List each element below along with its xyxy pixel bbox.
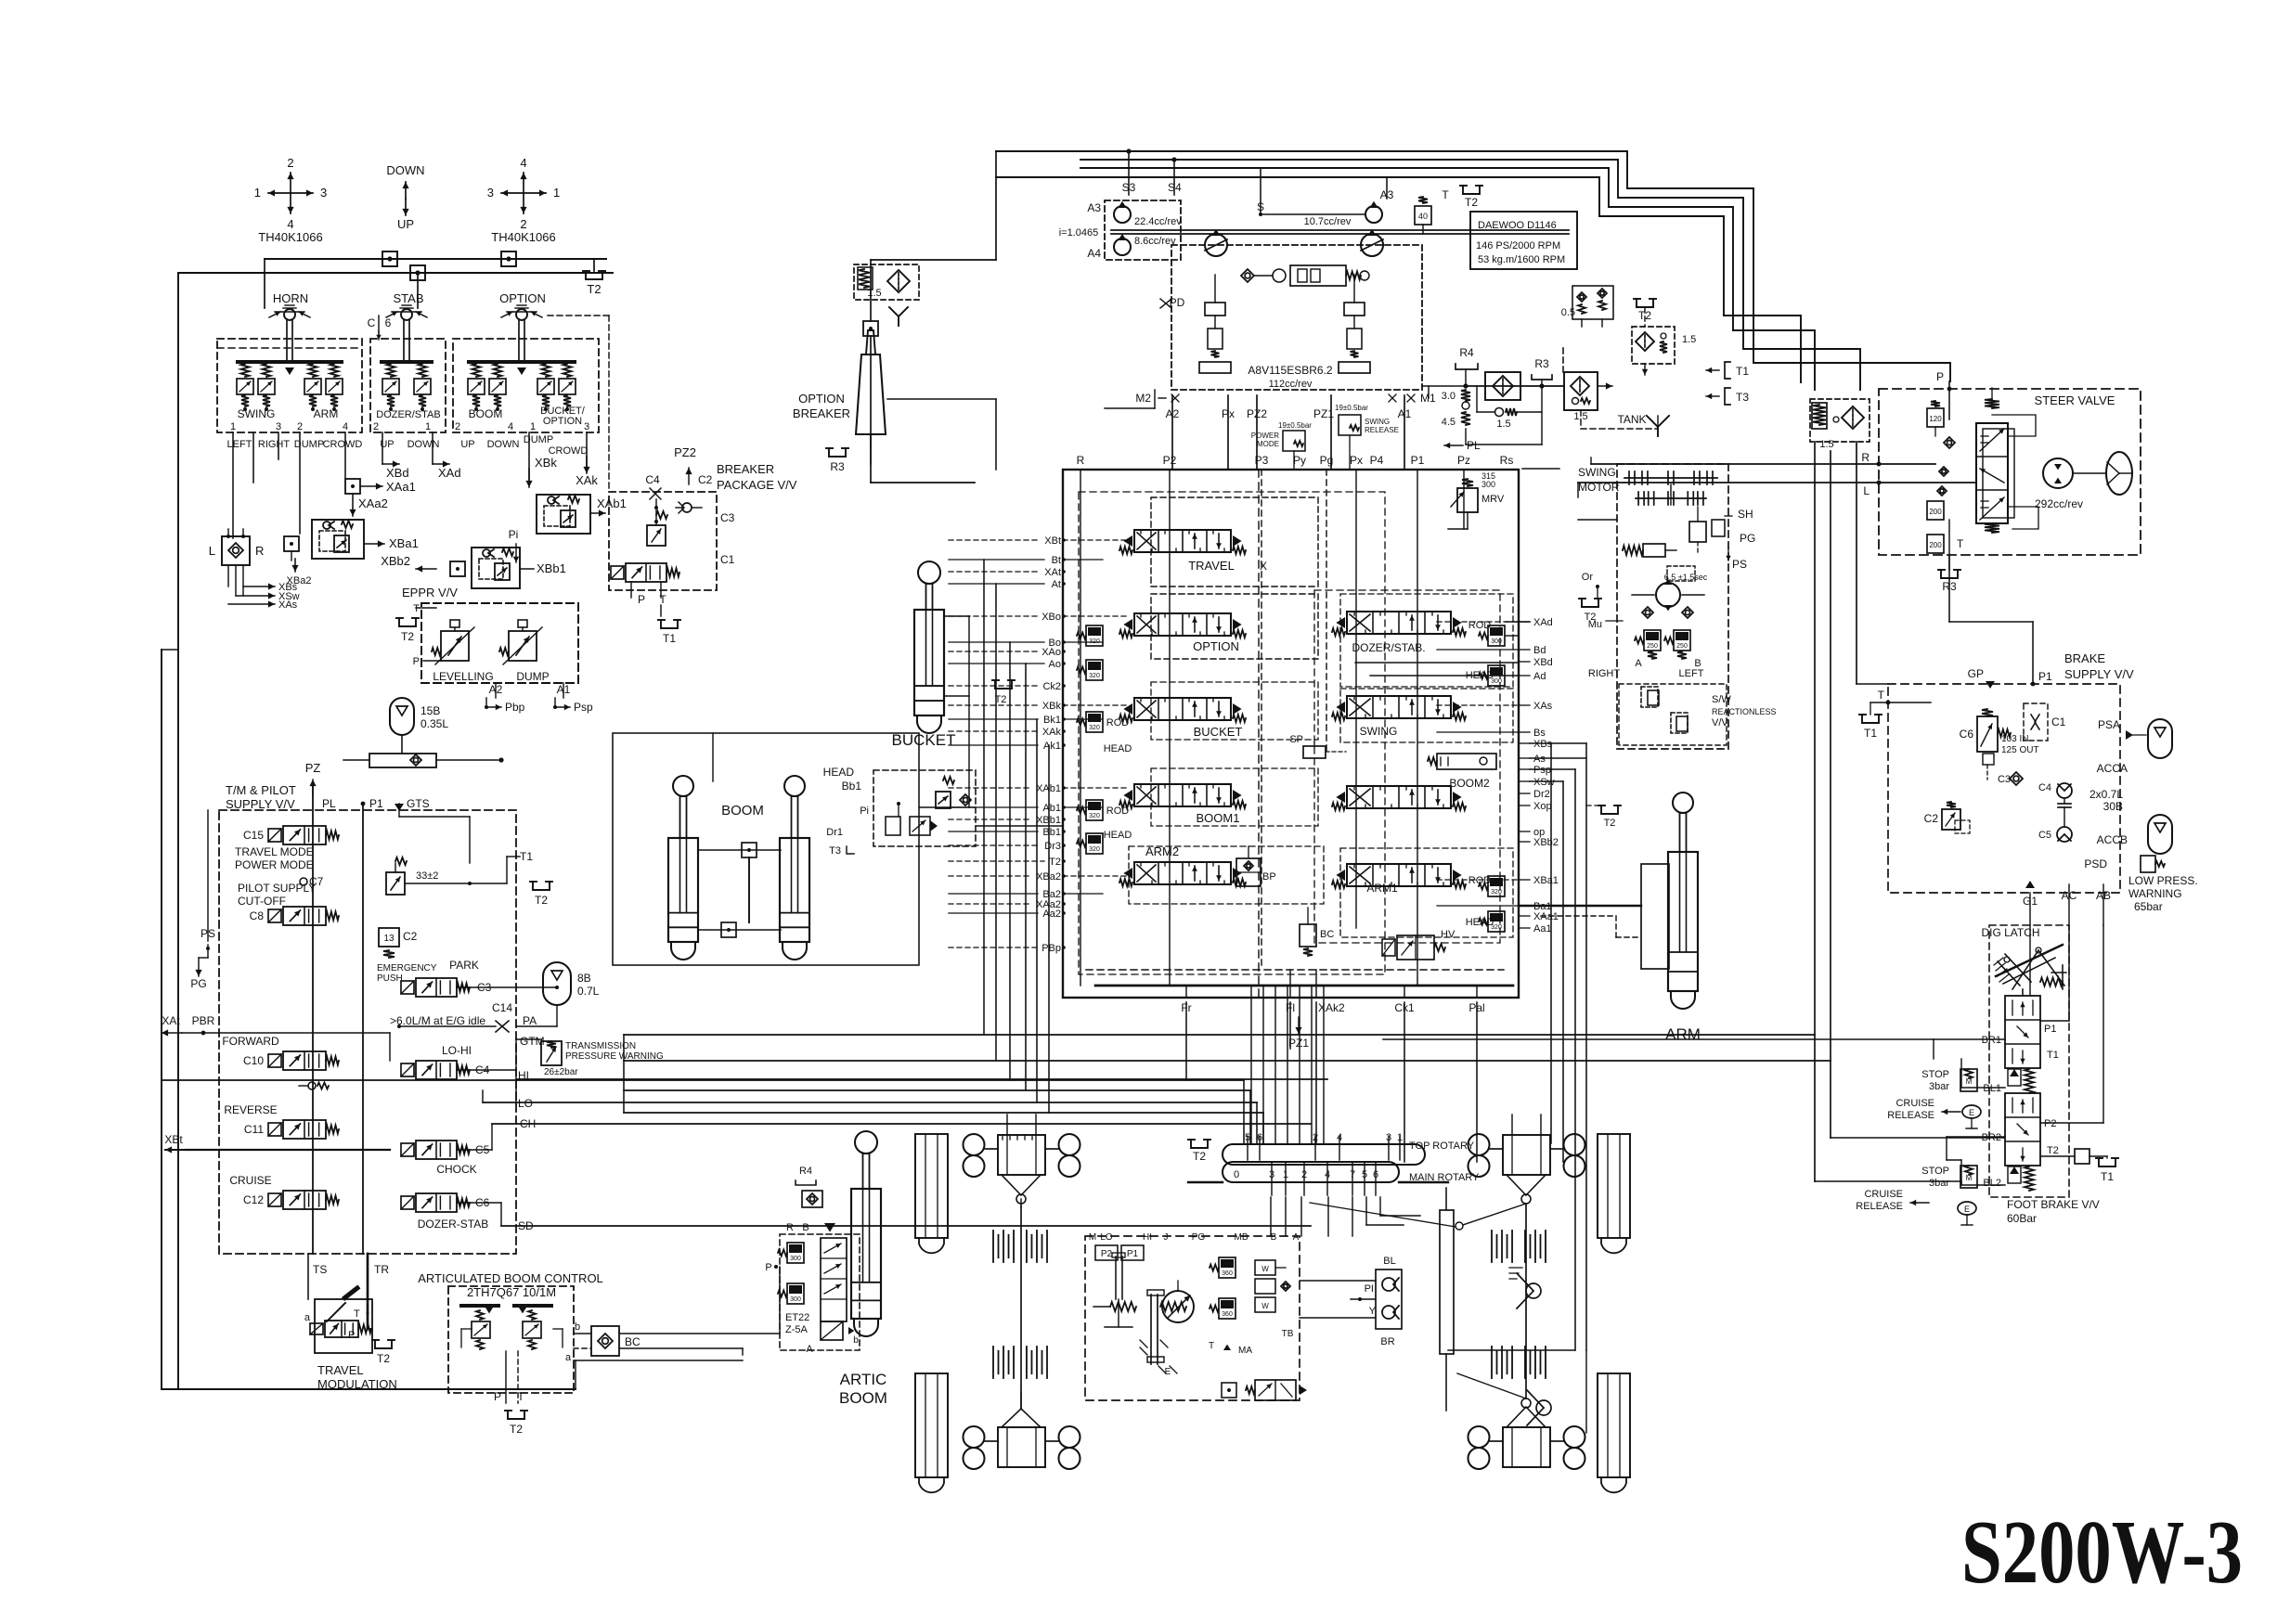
- svg-text:XAt: XAt: [162, 1014, 180, 1027]
- joystick pattern left TH40K1066: [254, 156, 327, 244]
- wire Ba1 thick: [1519, 905, 1641, 907]
- svg-text:PZ2: PZ2: [674, 445, 696, 459]
- svg-text:A: A: [1635, 658, 1642, 669]
- svg-text:PA: PA: [523, 1014, 537, 1027]
- wire HI row: [457, 1039, 541, 1104]
- stabilizer cylinder right front: [1598, 1134, 1630, 1253]
- transmission gears: [1093, 1253, 1186, 1364]
- transmission shift solenoid: [1222, 1380, 1307, 1400]
- svg-text:TR: TR: [374, 1263, 389, 1276]
- svg-text:DUMP: DUMP: [524, 434, 553, 445]
- cylinder BUCKET: [892, 561, 956, 749]
- svg-text:RELEASE: RELEASE: [1365, 426, 1399, 434]
- port XAd: [433, 432, 461, 480]
- svg-text:200: 200: [1929, 508, 1942, 516]
- svg-text:CHOCK: CHOCK: [436, 1163, 476, 1176]
- wire bundle mid 4: [624, 1089, 1250, 1091]
- svg-text:MODE: MODE: [1257, 440, 1279, 448]
- svg-text:RIGHT: RIGHT: [1588, 668, 1621, 679]
- fork joint right: [1509, 1268, 1541, 1308]
- svg-text:CUT-OFF: CUT-OFF: [238, 895, 286, 908]
- artic ports P T b a: [494, 1321, 580, 1403]
- Psp shuttle assembly: [1428, 754, 1496, 769]
- svg-text:103 IN: 103 IN: [2001, 734, 2028, 744]
- svg-text:Or: Or: [1582, 572, 1594, 583]
- port C7: [300, 875, 324, 888]
- svg-text:DAEWOO D1146: DAEWOO D1146: [1478, 220, 1557, 231]
- label UP DOWN DUMP CROWD: [460, 434, 588, 457]
- svg-text:CRUISE: CRUISE: [229, 1174, 271, 1187]
- cylinder ARM: [1665, 793, 1701, 1043]
- valve C2 emergency: [377, 928, 437, 984]
- wire CH long: [457, 1124, 1311, 1150]
- svg-text:P1: P1: [369, 797, 383, 810]
- svg-text:3: 3: [584, 421, 589, 432]
- wire top bus 2: [1080, 160, 1860, 390]
- svg-text:BREAKER: BREAKER: [793, 406, 850, 420]
- svg-text:T1: T1: [1736, 365, 1749, 378]
- solenoid valve C3 PARK: [401, 959, 492, 997]
- svg-text:Xop: Xop: [1533, 801, 1552, 812]
- svg-text:BC: BC: [1320, 929, 1334, 940]
- valve section ARM2: [1119, 844, 1324, 904]
- port C4 C2 C3 C1: [645, 473, 734, 566]
- svg-text:PL: PL: [1467, 439, 1481, 452]
- svg-text:1.5: 1.5: [1682, 334, 1696, 345]
- accumulator B + ACCB: [2097, 815, 2172, 854]
- tank T2 return filter: [1632, 299, 1696, 375]
- svg-text:T3: T3: [1736, 391, 1749, 404]
- svg-text:UP: UP: [397, 217, 414, 231]
- tank T2 top-left: [583, 259, 606, 296]
- svg-text:300: 300: [790, 1296, 801, 1303]
- svg-text:SWING: SWING: [1360, 725, 1398, 738]
- svg-text:Ao: Ao: [1049, 659, 1061, 670]
- main valve bottom collectors: [1086, 970, 1513, 998]
- svg-text:TS: TS: [313, 1263, 327, 1276]
- svg-text:TH40K1066: TH40K1066: [258, 230, 322, 244]
- svg-text:T2: T2: [535, 894, 548, 907]
- svg-text:STOP: STOP: [1921, 1069, 1949, 1080]
- svg-text:T: T: [1957, 537, 1964, 550]
- solenoid valve C10 FORWARD: [222, 1035, 339, 1070]
- svg-text:1.5: 1.5: [867, 288, 881, 299]
- svg-text:FOOT BRAKE V/V: FOOT BRAKE V/V: [2007, 1198, 2100, 1211]
- svg-text:T: T: [659, 593, 666, 606]
- svg-text:HEAD: HEAD: [1104, 830, 1132, 841]
- suspension spring pack left front: [993, 1231, 1047, 1262]
- svg-text:T1: T1: [2101, 1170, 2114, 1183]
- svg-text:T: T: [354, 1308, 360, 1320]
- label OPTION BREAKER: [793, 392, 850, 420]
- head valve box bucket: [823, 766, 976, 857]
- svg-text:4: 4: [520, 156, 526, 170]
- svg-text:A: A: [806, 1344, 813, 1355]
- transmission box: [1085, 1236, 1300, 1400]
- boom cylinder links: [698, 843, 781, 937]
- svg-text:R: R: [1861, 451, 1870, 464]
- wire main valve bottom drops: [1186, 1002, 1477, 1162]
- svg-text:T: T: [413, 603, 420, 614]
- swing brake spring piston: [1623, 544, 1676, 557]
- svg-text:MRV: MRV: [1481, 494, 1505, 505]
- svg-text:SWING: SWING: [1578, 466, 1616, 479]
- svg-text:TH40K1066: TH40K1066: [491, 230, 555, 244]
- svg-text:TRAVEL MODE: TRAVEL MODE: [235, 845, 314, 858]
- svg-text:BRAKE: BRAKE: [2064, 651, 2105, 665]
- cruise release upper: [1887, 1098, 1981, 1128]
- wire SD long: [457, 1203, 1311, 1226]
- EPPR valve LEVELLING: [432, 620, 494, 683]
- wire Rs to steer: [1522, 468, 1559, 470]
- svg-text:PZ1: PZ1: [1288, 1037, 1309, 1050]
- svg-text:Dr1: Dr1: [826, 827, 843, 838]
- DAEWOO engine box: [1470, 212, 1577, 269]
- svg-text:26±2bar: 26±2bar: [544, 1067, 578, 1077]
- junction box 1: [382, 251, 397, 266]
- tank T2 artic: [505, 1411, 527, 1436]
- svg-text:XBk: XBk: [535, 456, 557, 470]
- svg-text:RELEASE: RELEASE: [1856, 1201, 1903, 1212]
- svg-text:1: 1: [530, 421, 536, 432]
- svg-text:TB: TB: [1282, 1329, 1294, 1339]
- svg-text:PBp: PBp: [1041, 943, 1061, 954]
- main valve bottom ports: [1181, 1001, 1484, 1050]
- axle shaft right: [1525, 1204, 1527, 1398]
- svg-text:0.7L: 0.7L: [577, 985, 600, 998]
- svg-text:a: a: [565, 1352, 572, 1363]
- stop valve 3bar lower: [1921, 1166, 1977, 1189]
- svg-text:C2: C2: [403, 930, 418, 943]
- svg-text:Px: Px: [1350, 454, 1363, 467]
- lines HI LO CH SD: [518, 1097, 536, 1232]
- tank T2 xop drain: [1586, 806, 1621, 829]
- svg-text:MA: MA: [1238, 1346, 1252, 1356]
- svg-text:BOOM1: BOOM1: [1197, 811, 1240, 825]
- left 320 reliefs: [1077, 625, 1103, 854]
- pump 22.4cc: [1087, 181, 1182, 227]
- svg-text:2: 2: [373, 421, 379, 432]
- label T/M & PILOT SUPPLY V/V: [226, 783, 296, 811]
- svg-text:0.35L: 0.35L: [420, 717, 448, 730]
- label LEFT RIGHT DUMP CROWD: [227, 439, 363, 450]
- main valve internal dashed frame: [1079, 492, 1500, 974]
- svg-text:3.0: 3.0: [1442, 391, 1456, 402]
- svg-text:BUCKET: BUCKET: [892, 731, 956, 749]
- svg-text:HEAD: HEAD: [823, 766, 855, 779]
- swing release timer: [1664, 566, 1708, 582]
- steer spool: [1976, 388, 2014, 533]
- svg-text:T1: T1: [520, 850, 533, 863]
- ports TS TR: [308, 1254, 389, 1313]
- svg-text:15B: 15B: [420, 704, 440, 717]
- svg-text:STEER VALVE: STEER VALVE: [2035, 393, 2115, 407]
- svg-text:Bb1: Bb1: [842, 780, 862, 793]
- svg-text:TOP ROTARY: TOP ROTARY: [1409, 1141, 1475, 1152]
- svg-text:DUMP: DUMP: [516, 670, 549, 683]
- pump 10.7cc steering: [1257, 188, 1394, 227]
- svg-text:4.5: 4.5: [1442, 417, 1456, 428]
- label TANK + funnel: [1581, 410, 1669, 436]
- svg-text:Py: Py: [1293, 454, 1306, 467]
- svg-text:C12: C12: [243, 1193, 264, 1206]
- svg-text:b: b: [575, 1321, 580, 1333]
- junction box 2: [501, 251, 516, 266]
- svg-text:BOOM: BOOM: [721, 803, 764, 818]
- wire bundle mid 3: [162, 1079, 1244, 1081]
- svg-text:XAa1: XAa1: [386, 480, 416, 494]
- wire right verticals: [1551, 743, 1586, 1350]
- relief C3: [647, 499, 667, 546]
- steer relief 120: [1927, 401, 1944, 436]
- drive shaft right: [1440, 1188, 1454, 1411]
- svg-text:XBa1: XBa1: [1533, 875, 1559, 886]
- svg-text:OPTION: OPTION: [499, 291, 546, 305]
- tank T2 travel modulation: [372, 1340, 395, 1365]
- ports Pbp Psp: [485, 698, 593, 714]
- label BREAKER PACKAGE V/V: [717, 462, 797, 492]
- svg-text:DUMP: DUMP: [294, 439, 324, 450]
- pilot valve cluster BOOM/BUCKET box: [453, 339, 599, 432]
- valve section ARM1: [1332, 848, 1513, 937]
- tank T1 tm: [507, 850, 552, 907]
- svg-text:XAs: XAs: [1533, 701, 1553, 712]
- foot brake ports: [1982, 1024, 2059, 1189]
- wire artic lines: [574, 1267, 780, 1360]
- svg-text:B: B: [802, 1222, 809, 1233]
- solenoid valve C4 LO-HI: [401, 1044, 529, 1082]
- svg-text:LO-HI: LO-HI: [442, 1044, 472, 1057]
- svg-text:4: 4: [343, 421, 348, 432]
- svg-text:ET22: ET22: [785, 1312, 809, 1323]
- svg-text:LEFT: LEFT: [227, 439, 252, 450]
- fork joint lower: [1527, 1390, 1551, 1425]
- svg-text:XAt: XAt: [1044, 567, 1061, 578]
- svg-text:REACTIONLESS: REACTIONLESS: [1712, 707, 1777, 716]
- steer checks: [1937, 437, 1955, 496]
- wire top bus 3: [1080, 168, 1815, 390]
- wheel group rear-right: [1457, 1373, 1585, 1469]
- swing ports A B RIGHT LEFT: [1588, 658, 1704, 679]
- svg-text:PACKAGE V/V: PACKAGE V/V: [717, 478, 797, 492]
- svg-text:10.7cc/rev: 10.7cc/rev: [1304, 216, 1352, 227]
- svg-text:CRUISE: CRUISE: [1864, 1189, 1903, 1200]
- svg-text:300: 300: [1481, 480, 1495, 489]
- svg-text:J: J: [1164, 1232, 1169, 1243]
- svg-text:Ck2: Ck2: [1042, 681, 1061, 692]
- svg-text:XAk2: XAk2: [1318, 1001, 1345, 1014]
- svg-text:At: At: [1052, 579, 1061, 590]
- logo S200W-3: [1961, 1502, 2243, 1602]
- brake C4 C5 checks: [2038, 782, 2072, 842]
- wire BR1 long left: [1383, 1039, 1934, 1270]
- svg-text:C11: C11: [244, 1123, 264, 1136]
- wheel group front-right: [1310, 1134, 1585, 1230]
- svg-text:C8: C8: [250, 909, 265, 922]
- svg-text:XBb2: XBb2: [381, 554, 410, 568]
- svg-text:ARM: ARM: [314, 407, 339, 420]
- svg-text:EPPR V/V: EPPR V/V: [402, 586, 458, 599]
- svg-text:XBa1: XBa1: [389, 536, 419, 550]
- svg-text:BL2: BL2: [1983, 1178, 2001, 1189]
- svg-text:CRUISE: CRUISE: [1895, 1098, 1934, 1109]
- port PZ PL P1 GTS: [305, 761, 430, 811]
- valve BP: [1236, 846, 1276, 886]
- valve section BOOM1: [1104, 768, 1318, 841]
- port PSD low press warning: [2084, 856, 2197, 913]
- svg-text:Ad: Ad: [1533, 671, 1546, 682]
- wire bundle mid 5: [624, 1102, 1257, 1103]
- steer metering motor: [2035, 458, 2083, 510]
- svg-text:ROD: ROD: [1106, 717, 1130, 728]
- svg-text:320: 320: [1089, 673, 1100, 679]
- svg-text:60Bar: 60Bar: [2007, 1212, 2037, 1225]
- ports PS PG: [190, 927, 215, 990]
- port XBd: [382, 432, 409, 480]
- ports G1 AC AB: [2023, 881, 2111, 925]
- main control valve outline: [1063, 470, 1519, 998]
- wire C1 to T1: [405, 857, 507, 885]
- svg-text:a: a: [304, 1312, 311, 1323]
- label PL arrow: [1444, 439, 1481, 452]
- 0.5 check group: [1561, 286, 1613, 327]
- label PZ2: [674, 445, 696, 484]
- junction box 3: [410, 265, 425, 280]
- svg-text:BL1: BL1: [1983, 1083, 2001, 1094]
- svg-text:T1: T1: [663, 632, 676, 645]
- transmission top ports: [1089, 1232, 1300, 1243]
- wire OPTION pilot dashed to breaker: [548, 316, 609, 492]
- main pump left rotor: [1205, 229, 1227, 256]
- solenoid valve C6 DOZER-STAB: [401, 1193, 490, 1231]
- svg-text:Ak1: Ak1: [1043, 741, 1061, 752]
- T1 T3 tank brackets: [1706, 362, 1749, 405]
- svg-text:C4: C4: [2038, 782, 2051, 793]
- relief assembly XBa1: [284, 520, 419, 561]
- svg-text:E: E: [1969, 1108, 1974, 1117]
- svg-text:R4: R4: [1459, 346, 1474, 359]
- relief assembly XAb1: [509, 495, 627, 562]
- brake C2 relief: [1924, 802, 1970, 833]
- wire pilot supply bus lower: [178, 270, 613, 308]
- transmission pump: [1162, 1281, 1194, 1322]
- svg-text:C2: C2: [1924, 812, 1939, 825]
- swing check valves: [1642, 607, 1693, 618]
- pump regulator center: [1241, 265, 1369, 286]
- wire brake to foot brake: [2030, 925, 2103, 1123]
- pilot valve cluster DOZER/STAB box: [370, 339, 446, 432]
- svg-text:BOOM: BOOM: [469, 407, 503, 420]
- svg-text:XBt: XBt: [1044, 535, 1061, 547]
- wire PS riser: [208, 810, 219, 948]
- svg-text:3bar: 3bar: [1929, 1081, 1949, 1092]
- svg-text:T2: T2: [1465, 196, 1478, 209]
- check valve L/R: [209, 529, 265, 596]
- svg-text:b: b: [853, 1335, 859, 1346]
- label DOZER/STAB ports: [373, 409, 441, 450]
- artic pedal valve right: [512, 1304, 563, 1349]
- svg-text:MB: MB: [1235, 1232, 1249, 1243]
- wheel group rear-left: [964, 1392, 1080, 1469]
- svg-text:P: P: [638, 593, 645, 606]
- filter return 1.5 with bypass: [1563, 348, 1612, 422]
- wire M2 left: [871, 260, 1155, 483]
- svg-text:>6.0L/M at E/G idle: >6.0L/M at E/G idle: [390, 1014, 485, 1027]
- svg-text:T2: T2: [1193, 1150, 1206, 1163]
- foot brake spring check lower: [2008, 1166, 2034, 1191]
- pump 8.6cc: [1059, 227, 1176, 260]
- svg-text:0: 0: [1234, 1169, 1239, 1180]
- wire bundle left risers: [623, 1035, 625, 1113]
- svg-text:Ab1: Ab1: [1042, 803, 1061, 814]
- solenoid valve C5 CHOCK: [401, 1141, 490, 1176]
- EPPR valve DUMP: [499, 620, 550, 683]
- svg-text:19±0.5bar: 19±0.5bar: [1278, 421, 1312, 430]
- svg-text:R4: R4: [799, 1166, 812, 1177]
- label GTM + transmission warning: [520, 1035, 664, 1077]
- svg-text:Pbp: Pbp: [505, 701, 525, 714]
- svg-text:Aa2: Aa2: [1042, 909, 1061, 920]
- svg-text:P1: P1: [2044, 1024, 2056, 1035]
- svg-text:E: E: [1964, 1205, 1970, 1214]
- steer port T R3: [1938, 520, 1964, 593]
- svg-text:Dr2: Dr2: [1533, 789, 1550, 800]
- stop valve 3bar upper: [1921, 1069, 1977, 1092]
- swing motor box: [1578, 464, 1728, 749]
- svg-text:1: 1: [425, 421, 431, 432]
- svg-text:XAd: XAd: [1533, 617, 1553, 628]
- main valve right port labels: [1519, 617, 1559, 934]
- svg-text:SWING: SWING: [1365, 418, 1390, 426]
- label >6.0L/M at E/G idle: [390, 1001, 557, 1032]
- valve section OPTION: [1119, 594, 1318, 659]
- svg-text:PARK: PARK: [449, 959, 479, 972]
- label BOOM BUCKET/OPTION ports: [455, 406, 589, 432]
- svg-text:P2: P2: [2044, 1118, 2056, 1129]
- svg-text:ACCA: ACCA: [2097, 762, 2128, 775]
- svg-text:XAd: XAd: [438, 466, 461, 480]
- svg-text:R: R: [1077, 454, 1085, 467]
- wire cruise bundle left: [1831, 1061, 1961, 1185]
- main pump right rotor: [1361, 229, 1383, 256]
- boom outline box: [613, 733, 919, 965]
- solenoid valve C8 pilot supply cutoff: [238, 882, 339, 925]
- tank T1 foot brake: [2040, 1149, 2118, 1183]
- svg-text:S/W: S/W: [1712, 694, 1731, 705]
- wire bundle mid 1: [624, 1034, 1815, 1036]
- svg-text:DOWN: DOWN: [386, 163, 424, 177]
- svg-text:PZ: PZ: [305, 761, 321, 775]
- axle shaft left: [1020, 1206, 1022, 1409]
- main valve top ports: [1077, 454, 1514, 467]
- svg-text:3: 3: [487, 186, 494, 200]
- svg-text:SUPPLY V/V: SUPPLY V/V: [226, 797, 295, 811]
- steer feedback lines: [1992, 415, 2038, 529]
- svg-text:XBa2: XBa2: [287, 575, 312, 586]
- axle feed stubs front: [1007, 1115, 1541, 1135]
- arm bracket: [1541, 864, 1669, 969]
- svg-text:P4: P4: [1370, 454, 1384, 467]
- wire thick TR down: [368, 1313, 372, 1329]
- EPPR V/V block: [402, 586, 578, 683]
- port Mu: [1588, 619, 1623, 630]
- transmission P2 P1 boxes: [1095, 1245, 1144, 1260]
- svg-text:REVERSE: REVERSE: [224, 1103, 277, 1116]
- svg-text:As: As: [1533, 754, 1546, 765]
- svg-text:BL: BL: [1383, 1256, 1395, 1267]
- brake C1 check: [2024, 703, 2066, 741]
- shuttle BC artic: [574, 1326, 640, 1356]
